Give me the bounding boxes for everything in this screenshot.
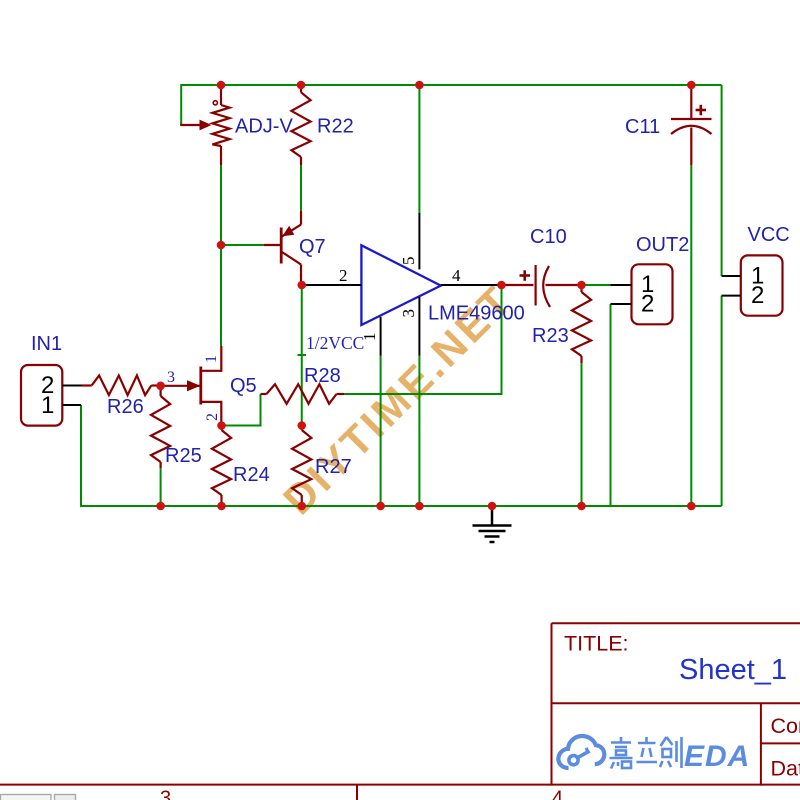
svg-text:1: 1 xyxy=(41,392,54,419)
svg-text:Sheet_1: Sheet_1 xyxy=(679,654,787,686)
svg-text:1: 1 xyxy=(360,333,379,342)
svg-text:LME49600: LME49600 xyxy=(428,303,525,325)
svg-text:C10: C10 xyxy=(530,226,567,248)
svg-text:R28: R28 xyxy=(304,365,341,387)
wire R23 bottom xyxy=(581,363,583,506)
resistor R27 xyxy=(292,426,311,507)
svg-text:C11: C11 xyxy=(625,116,660,138)
connector IN1 xyxy=(21,365,82,426)
svg-text:Date: Date xyxy=(771,757,800,781)
svg-text:R23: R23 xyxy=(532,325,569,347)
svg-text:1: 1 xyxy=(203,355,220,363)
logo text 嘉立创 (simplified strokes) xyxy=(610,737,682,769)
svg-text:4: 4 xyxy=(452,266,461,285)
svg-text:R26: R26 xyxy=(107,396,144,418)
wire pin3 down xyxy=(418,356,420,507)
wire C11 bottom xyxy=(690,165,692,506)
svg-text:2: 2 xyxy=(339,266,348,285)
svg-text:ADJ-V: ADJ-V xyxy=(235,116,293,138)
svg-text:3: 3 xyxy=(160,788,171,800)
wire Q7 base xyxy=(221,244,264,246)
pin 3 wire xyxy=(418,297,420,356)
pin 1 wire xyxy=(380,317,382,356)
svg-text:R25: R25 xyxy=(165,445,202,467)
svg-text:Com: Com xyxy=(771,714,800,738)
svg-text:2: 2 xyxy=(751,282,764,309)
potentiometer ADJ-V xyxy=(180,86,229,165)
title block border xyxy=(552,623,800,785)
wire C10 to OUT2 xyxy=(582,284,611,286)
resistor R24 xyxy=(212,426,231,507)
resistor R26 xyxy=(82,376,161,396)
svg-text:3: 3 xyxy=(167,369,175,386)
transistor Q7 xyxy=(264,211,301,285)
wire feedback R28 to output xyxy=(344,285,502,394)
wire R22 bottom to Q7 emitter xyxy=(300,165,302,211)
svg-text:5: 5 xyxy=(399,257,418,266)
svg-text:IN1: IN1 xyxy=(31,333,62,355)
svg-text:EDA: EDA xyxy=(684,740,750,773)
corner UI box 2 xyxy=(55,795,76,800)
svg-text:2: 2 xyxy=(204,413,221,421)
svg-text:VCC: VCC xyxy=(748,224,790,246)
pin 4 wire xyxy=(441,284,502,286)
net label tick 1/2VCC xyxy=(298,354,307,356)
wire Q5 source to R28 xyxy=(222,394,261,426)
wire node 1/2VCC vertical xyxy=(301,285,303,426)
wire pin1 down xyxy=(380,356,382,507)
svg-text:3: 3 xyxy=(399,309,418,318)
corner UI box 1 xyxy=(1,795,52,800)
svg-text:R22: R22 xyxy=(317,116,354,138)
connector VCC xyxy=(722,255,783,315)
connector OUT2 xyxy=(611,264,673,324)
wire top rail xyxy=(181,85,721,125)
pin 5 wire xyxy=(418,213,420,269)
svg-text:TITLE:: TITLE: xyxy=(564,632,629,656)
capacitor C11 xyxy=(671,86,712,165)
wire R25 bottom xyxy=(160,468,162,506)
svg-text:OUT2: OUT2 xyxy=(636,234,689,256)
svg-text:Q7: Q7 xyxy=(299,236,326,258)
ground xyxy=(473,506,512,542)
resistor R23 xyxy=(572,285,591,363)
wire OUT2 pin2 down xyxy=(610,304,612,506)
logo cloud xyxy=(558,736,604,768)
svg-text:Q5: Q5 xyxy=(230,375,257,397)
wire VCC pin1 to rail xyxy=(721,85,723,276)
wire VCC pin2 to ground rail xyxy=(721,296,723,506)
wire pot bottom to Q5 drain xyxy=(220,165,222,346)
svg-text:2: 2 xyxy=(641,291,654,318)
wire pin5 from rail xyxy=(418,85,420,213)
svg-text:4: 4 xyxy=(552,788,563,800)
resistor R22 xyxy=(291,86,310,165)
op-amp U1 LME49600 xyxy=(361,245,440,325)
svg-text:R27: R27 xyxy=(315,456,352,478)
svg-text:1/2VCC: 1/2VCC xyxy=(306,333,364,353)
capacitor C10 xyxy=(502,265,582,307)
sheet border tick xyxy=(356,785,358,800)
transistor Q5 xyxy=(161,346,221,426)
svg-text:R24: R24 xyxy=(233,464,270,486)
sheet bottom border xyxy=(0,784,800,786)
resistor R28 xyxy=(261,384,345,404)
resistor R25 xyxy=(151,386,170,468)
pin 2 wire xyxy=(302,284,362,286)
wire bottom rail xyxy=(81,405,722,506)
